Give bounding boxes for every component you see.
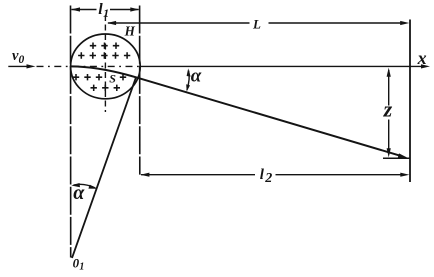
dimension l2 <box>141 174 255 176</box>
svg-text:x: x <box>417 48 427 68</box>
svg-text:H: H <box>124 24 136 39</box>
dimension Z vertical with tick <box>388 70 390 106</box>
svg-text:l2: l2 <box>260 167 272 186</box>
plus signs of field region row 1 <box>90 43 119 49</box>
node x-axis dash-dot line <box>8 65 28 67</box>
node alpha angle arc lower at O1 <box>74 184 96 188</box>
beam trajectory curved inside field, straight outside <box>71 66 401 155</box>
svg-text:l1: l1 <box>98 1 109 20</box>
dimension l1 top <box>72 9 97 11</box>
plus signs of field region row 2 <box>78 52 130 58</box>
svg-text:01: 01 <box>73 256 85 273</box>
wire left vertical boundary line of field region <box>70 6 72 258</box>
plus signs of field region row 3 <box>73 74 126 80</box>
wire central vertical dashed line through circle center <box>104 15 106 112</box>
svg-text:z: z <box>383 97 393 122</box>
svg-text:L: L <box>252 17 261 32</box>
circle field region boundary <box>71 34 141 99</box>
plus signs of field region row 4 <box>91 85 121 91</box>
dimension L <box>108 22 250 24</box>
wire radius line from O1 to beam exit point <box>72 77 136 258</box>
wire right vertical boundary line of field region <box>139 6 141 175</box>
wire screen vertical line <box>409 20 411 183</box>
svg-text:α: α <box>191 66 202 87</box>
svg-text:v0: v0 <box>12 48 24 66</box>
node alpha angle arc upper <box>187 71 189 90</box>
svg-text:S: S <box>109 72 116 86</box>
svg-text:α: α <box>73 182 85 204</box>
